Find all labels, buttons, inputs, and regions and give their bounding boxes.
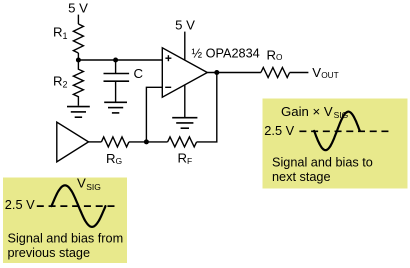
svg-text:Gain × V: Gain × V: [281, 104, 333, 119]
capacitor C: [104, 74, 130, 82]
label RF: [178, 151, 193, 166]
svg-text:R: R: [53, 73, 63, 88]
power 5V (divider supply): [68, 1, 88, 16]
op-amp U1 (1/2 OPA2834): [162, 48, 207, 97]
label 1/2 OPA2834: [192, 46, 260, 60]
resistor RF: [168, 137, 197, 147]
label 2.5 V (previous stage bias): [5, 197, 35, 212]
label 2.5 V (next stage bias): [264, 123, 294, 138]
label R1: [53, 25, 68, 41]
svg-text:next stage: next stage: [272, 170, 331, 184]
sine wave VSIG (previous stage): [52, 185, 106, 227]
label C: [134, 66, 144, 81]
buffer amp (previous stage): [57, 122, 89, 162]
wire: capacitor to ground: [115, 81, 117, 102]
svg-text:5 V: 5 V: [68, 1, 88, 16]
svg-text:R: R: [178, 151, 188, 166]
svg-text:SIG: SIG: [86, 182, 101, 192]
resistor R1: [73, 24, 83, 53]
svg-text:2.5 V: 2.5 V: [5, 197, 35, 212]
node C (output node): [214, 70, 219, 75]
node VOUT label: [312, 65, 339, 80]
sine wave Gain x VSIG (next stage): [314, 112, 360, 151]
caption: Signal and bias from previous stage: [8, 231, 124, 259]
svg-text:R: R: [267, 47, 277, 62]
svg-text:G: G: [116, 156, 123, 166]
label RG: [106, 151, 122, 166]
resistor R2: [73, 60, 83, 106]
wire: node D up to - input: [146, 87, 162, 142]
svg-text:R: R: [106, 151, 116, 166]
ground (op-amp): [172, 118, 197, 129]
wire: 5V to op-amp V+: [184, 32, 186, 61]
ground (below R2): [67, 107, 90, 118]
svg-text:½ OPA2834: ½ OPA2834: [192, 46, 260, 60]
node A (divider tap): [76, 58, 81, 63]
wire: R1 to node A: [77, 53, 79, 60]
caption: Signal and bias to next stage: [272, 156, 373, 184]
wire: node B to capacitor: [115, 60, 117, 74]
label R2: [53, 73, 68, 89]
svg-text:O: O: [276, 52, 283, 62]
svg-text:1: 1: [63, 31, 68, 41]
resistor RO: [261, 68, 290, 78]
bias dashed line (next stage): [299, 130, 388, 132]
svg-text:F: F: [187, 156, 192, 166]
callout box: signal and bias from previous stage: [3, 178, 127, 264]
svg-text:previous stage: previous stage: [8, 246, 91, 260]
wire: op-amp V- to ground: [184, 85, 186, 118]
power 5V (op-amp supply): [175, 18, 195, 33]
svg-text:V: V: [312, 65, 321, 80]
svg-text:Signal and bias to: Signal and bias to: [272, 156, 373, 170]
svg-text:2.5 V: 2.5 V: [264, 123, 294, 138]
wire: RG to node D: [129, 141, 147, 143]
svg-text:C: C: [134, 66, 144, 81]
wire: RF to output node: [197, 73, 217, 142]
wire: node D to RF: [146, 141, 167, 143]
wire: op-amp output to RO: [207, 72, 261, 74]
resistor RG: [101, 137, 128, 147]
svg-text:Signal and bias from: Signal and bias from: [8, 231, 124, 245]
wire: RO to VOUT: [290, 72, 309, 74]
wire: buffer to RG: [89, 141, 102, 143]
bias dashed line (previous stage): [37, 205, 115, 207]
wire: 5V to R1: [77, 15, 79, 24]
svg-text:R: R: [53, 25, 63, 40]
op-amp - pin mark: [165, 86, 171, 88]
svg-text:2: 2: [63, 79, 68, 89]
callout box: signal and bias to next stage: [263, 99, 408, 189]
label RO: [267, 47, 284, 62]
node D (inverting input node): [144, 139, 149, 144]
op-amp + pin mark: [165, 55, 171, 61]
wire: node A to op-amp + input: [78, 59, 162, 61]
label Gain x VSIG: [281, 104, 348, 120]
svg-text:5 V: 5 V: [175, 18, 195, 33]
svg-text:OUT: OUT: [321, 70, 339, 80]
svg-text:V: V: [77, 176, 86, 191]
node B (capacitor tap): [113, 58, 118, 63]
ground (below C): [104, 102, 127, 113]
label VSIG: [77, 176, 101, 192]
